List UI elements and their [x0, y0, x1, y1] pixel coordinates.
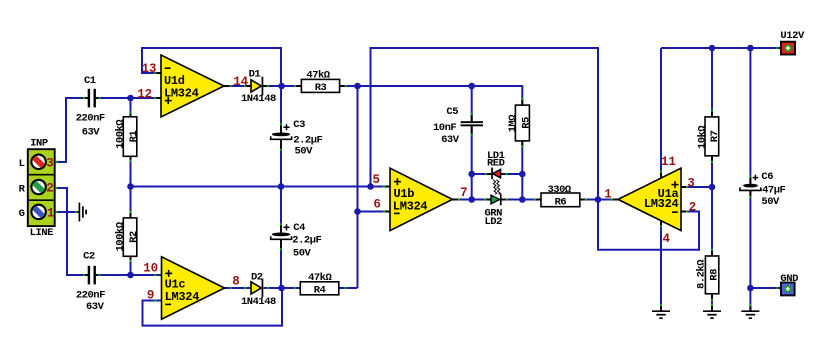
svg-text:C4: C4 [293, 222, 305, 234]
wire R4 right [339, 287, 358, 289]
wire U1d feedback loop: pin13 up over to D1 cathode node [142, 48, 281, 125]
node GND [747, 285, 754, 292]
resistor R6 330 [541, 193, 580, 207]
capacitor C5 10nF [461, 121, 483, 126]
wire C5 top branch [471, 86, 473, 121]
svg-text:L: L [19, 158, 25, 170]
screw terminal 2 (R) [31, 180, 46, 195]
svg-text:3: 3 [46, 156, 53, 170]
svg-text:5: 5 [372, 173, 379, 187]
wire U1c feedback loop pin9 [143, 288, 283, 326]
node C5 top [468, 83, 475, 90]
node R7-R8 pin3 [709, 184, 716, 191]
svg-text:LM324: LM324 [165, 290, 200, 304]
svg-text:220nF: 220nF [76, 289, 105, 301]
node U1b pin6 tap [354, 208, 361, 215]
node LED left top [468, 171, 475, 178]
wire R7 top [711, 48, 713, 117]
svg-text:U12V: U12V [780, 30, 805, 42]
wire rail to R6 [522, 199, 541, 201]
wire to LD2 anode [472, 199, 492, 201]
terminal pin numbers 3 2 1 [46, 156, 54, 220]
capacitor C2 220nF [88, 266, 96, 285]
label C5 [433, 106, 460, 146]
resistor R5 1M [515, 105, 529, 141]
svg-text:10: 10 [143, 262, 158, 276]
node R1 top / pin12 [127, 95, 134, 102]
svg-text:1: 1 [604, 187, 611, 201]
label R5 [507, 114, 533, 133]
svg-text:47kΩ: 47kΩ [306, 70, 330, 82]
svg-text:8.2kΩ: 8.2kΩ [695, 259, 707, 289]
svg-text:GND: GND [780, 273, 798, 285]
wire input L to C1 [55, 98, 88, 162]
resistor R2 100k [123, 218, 137, 256]
wire R1 top [130, 98, 132, 117]
svg-text:R: R [19, 184, 26, 196]
resistor R3 47k [301, 79, 339, 92]
wire C6 bottom to GND node [749, 191, 751, 311]
wire U1b pin7 output [453, 199, 472, 201]
svg-text:C3: C3 [293, 119, 305, 131]
svg-text:7: 7 [460, 186, 467, 200]
label INP / LINE / L R G [19, 137, 54, 239]
svg-text:2: 2 [689, 200, 696, 214]
svg-text:4: 4 [663, 232, 671, 246]
svg-text:1N4148: 1N4148 [241, 93, 276, 105]
node LED left bottom [468, 196, 475, 203]
wire R2 bottom [130, 256, 132, 275]
resistor R4 47k [300, 282, 339, 295]
label C3 [293, 119, 322, 157]
wire input G to ground [55, 211, 79, 213]
wire C5 bottom / left LED rail [471, 126, 473, 199]
label C1 [76, 75, 105, 139]
ground under U1a pin4 [652, 311, 670, 318]
op-amp U1d LM324 [161, 55, 224, 117]
resistor R8 8.2k [705, 256, 718, 294]
node C6 top rail [747, 45, 754, 52]
svg-text:R7: R7 [709, 130, 721, 142]
svg-text:1MΩ: 1MΩ [507, 114, 519, 133]
svg-text:R4: R4 [314, 285, 326, 297]
op-amp U1a LM324 (mirrored) [618, 168, 681, 230]
node R1-R2 vref [127, 183, 134, 190]
svg-text:63V: 63V [441, 134, 460, 146]
wire top segment3 supply rail [661, 47, 781, 49]
svg-text:G: G [19, 208, 25, 220]
svg-text:63V: 63V [86, 301, 105, 313]
label D2 [241, 271, 276, 308]
wire top segment2 vref distribution [371, 48, 599, 200]
diode D1 1N4148 [251, 77, 263, 96]
svg-text:14: 14 [233, 75, 248, 89]
black pin stubs [77, 48, 782, 311]
wire U1b pin6 [358, 211, 391, 213]
wire D2 to R4 [264, 287, 301, 289]
svg-text:63V: 63V [82, 127, 101, 139]
node D2 cathode [278, 285, 285, 292]
wire U1c output to D2 [225, 287, 252, 289]
LED LD2 GRN (points right) [491, 194, 502, 206]
wire R7 bottom to R8 top [711, 156, 713, 256]
wire C3 bottom to vref bus to C4 top [280, 150, 282, 224]
LED LD1 RED (points left) [491, 168, 500, 180]
svg-text:10kΩ: 10kΩ [696, 125, 708, 149]
svg-text:R6: R6 [555, 197, 567, 209]
label D1 [241, 68, 276, 105]
screw terminal 3 (L) [31, 154, 46, 169]
svg-text:330Ω: 330Ω [547, 184, 571, 196]
svg-text:11: 11 [661, 155, 676, 169]
node D1 cathode [278, 83, 285, 90]
label R7 [696, 125, 720, 149]
svg-text:10nF: 10nF [433, 122, 456, 134]
wire U1a pin11 power [660, 48, 662, 178]
op-amp pin numbers [137, 62, 696, 303]
connector X1 LINE terminal block [28, 149, 55, 226]
svg-text:3: 3 [687, 176, 694, 190]
capacitor C1 220nF [88, 89, 96, 108]
svg-text:220nF: 220nF [76, 113, 105, 125]
capacitor C6 47uF polarized [740, 175, 761, 191]
wire C4 bottom to D2 node [280, 249, 282, 288]
label R2 [114, 221, 139, 251]
svg-text:C6: C6 [761, 171, 773, 183]
ground at input G (rotated) [79, 203, 86, 222]
svg-text:12: 12 [137, 88, 152, 102]
svg-text:R8: R8 [709, 269, 721, 281]
wire LD1 anode to rail [500, 173, 522, 175]
node R3 right [354, 83, 361, 90]
svg-text:C2: C2 [83, 251, 95, 263]
wire R1 bottom to vref bus [130, 156, 132, 186]
svg-text:LM324: LM324 [644, 197, 679, 211]
svg-text:LM324: LM324 [393, 199, 428, 213]
label R1 [114, 119, 139, 149]
wire LD2 cathode to rail [501, 199, 523, 201]
wire C1 to U1d pin12 [96, 97, 161, 99]
svg-text:47kΩ: 47kΩ [308, 272, 332, 284]
svg-text:50V: 50V [293, 247, 312, 259]
svg-text:100kΩ: 100kΩ [114, 119, 126, 149]
screw terminal 1 (G) [31, 204, 46, 219]
node U1a output [595, 196, 602, 203]
capacitor C3 2.2uF polarized [271, 124, 292, 139]
svg-text:RED: RED [487, 158, 505, 170]
svg-text:D1: D1 [249, 68, 261, 80]
label C4 [292, 222, 321, 259]
wire GND node to GND square [750, 287, 781, 289]
svg-text:8: 8 [232, 275, 239, 289]
svg-text:100kΩ: 100kΩ [114, 221, 126, 251]
label C6 [761, 171, 785, 208]
wire R6 to U1a output node [580, 199, 618, 201]
node LED right bottom [519, 196, 526, 203]
svg-text:1N4148: 1N4148 [241, 296, 276, 308]
node R2 bottom / pin10 [127, 272, 134, 279]
wire U1a pin3 to R7/R8 [681, 186, 712, 188]
svg-text:R1: R1 [128, 131, 140, 143]
svg-text:2: 2 [46, 182, 53, 196]
LED arrows squiggle between LD1 and LD2 [493, 180, 500, 195]
svg-text:R5: R5 [521, 117, 533, 129]
diode D2 1N4148 [251, 279, 263, 298]
label R8 [695, 259, 720, 289]
wire vref bus to U1b pin5 [131, 186, 391, 188]
wire D1 to R3 [264, 85, 302, 87]
svg-text:6: 6 [373, 197, 380, 211]
svg-text:1: 1 [47, 207, 54, 221]
label LD2 GRN [485, 208, 503, 229]
wire U1a pin4 to ground [660, 221, 662, 311]
ground under R8 [703, 311, 721, 318]
label R6 [547, 184, 571, 209]
wire to LD1 cathode [472, 173, 492, 175]
label R4 [308, 272, 332, 297]
ground under C6 / GND node [741, 311, 759, 318]
resistor R1 100k [123, 117, 137, 157]
svg-text:R3: R3 [315, 82, 327, 94]
label LD1 RED [487, 150, 505, 170]
wire R2 top [130, 187, 132, 218]
green pin-connection dots [55, 47, 778, 306]
op-amp U1c LM324 [162, 257, 225, 319]
wire R3 right to R5 top corner [340, 86, 523, 105]
resistor R7 10k [705, 117, 719, 156]
svg-text:2.2µF: 2.2µF [292, 234, 321, 246]
wire U1a feedback loop pin2 [598, 200, 699, 250]
node R7 top rail [709, 45, 716, 52]
svg-text:9: 9 [147, 289, 154, 303]
svg-text:C5: C5 [446, 106, 458, 118]
svg-text:LINE: LINE [30, 227, 54, 239]
wire input R to C2 [55, 188, 88, 275]
svg-text:INP: INP [30, 137, 48, 149]
wire U1d output to D1 [224, 85, 251, 87]
svg-text:C1: C1 [84, 75, 96, 87]
svg-text:LD2: LD2 [485, 216, 503, 228]
wire R3-R4 join column [357, 86, 359, 288]
wire R8 bottom to ground [711, 294, 713, 311]
wire C6 column [749, 48, 751, 184]
node LED right top [519, 171, 526, 178]
svg-text:50V: 50V [761, 196, 780, 208]
supply symbol U12V [781, 42, 795, 55]
label R3 [306, 70, 330, 95]
wire C2 to U1c pin10 [96, 274, 161, 276]
svg-text:D2: D2 [251, 271, 263, 283]
svg-text:R2: R2 [128, 231, 140, 243]
label C2 [76, 251, 105, 313]
svg-text:47µF: 47µF [762, 185, 785, 197]
svg-text:50V: 50V [295, 145, 314, 157]
capacitor C4 2.2uF polarized [271, 224, 292, 239]
node vref bus tap [367, 183, 374, 190]
svg-text:13: 13 [142, 62, 157, 76]
node C3-C4 vref [278, 183, 285, 190]
op-amp U1b LM324 [390, 168, 453, 230]
svg-text:LM324: LM324 [164, 87, 199, 101]
wire R5 bottom / right LED rail [521, 141, 523, 200]
supply symbol GND (square) [781, 283, 795, 296]
